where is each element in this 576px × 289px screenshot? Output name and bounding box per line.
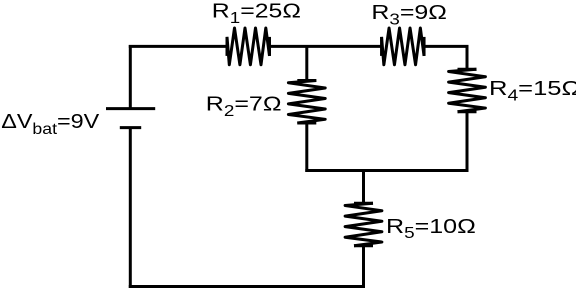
svg-text:ΔVbat=9V: ΔVbat=9V xyxy=(1,109,99,137)
label R1=25Ω xyxy=(212,0,301,26)
wire: R2 top lead from junction xyxy=(305,45,308,81)
wire: top-left corner to R1 xyxy=(129,45,228,48)
wire: battery bottom lead xyxy=(129,128,132,288)
wire: middle rail (R2 bottom to R4 bottom) xyxy=(305,169,468,172)
label R2=7Ω xyxy=(206,92,282,120)
label R4=15Ω xyxy=(489,76,576,104)
svg-text:R1=25Ω: R1=25Ω xyxy=(212,0,301,26)
svg-text:R4=15Ω: R4=15Ω xyxy=(489,76,576,104)
resistor R5 xyxy=(345,203,382,246)
wire: R4 bottom lead xyxy=(466,112,469,172)
label ΔVbat=9V xyxy=(1,109,99,137)
label R3=9Ω xyxy=(371,0,447,28)
svg-text:R2=7Ω: R2=7Ω xyxy=(206,92,282,120)
svg-text:R5=10Ω: R5=10Ω xyxy=(386,214,476,242)
wire: R4 top lead xyxy=(466,45,469,69)
battery V1 plates xyxy=(106,109,155,128)
wire: bottom rail xyxy=(129,285,365,288)
wire: R5 bottom lead xyxy=(362,246,365,288)
resistor R3 xyxy=(382,28,425,65)
wire: battery top lead xyxy=(129,45,132,109)
resistor R2 xyxy=(288,81,325,124)
wire: R5 top lead from middle-rail junction xyxy=(362,169,365,203)
resistor R1 xyxy=(227,28,270,65)
resistor R4 xyxy=(449,69,486,112)
label R5=10Ω xyxy=(386,214,476,242)
wire: R1 to R3 (through top junction node) xyxy=(269,45,382,48)
wire: R2 bottom lead xyxy=(305,123,308,172)
svg-text:R3=9Ω: R3=9Ω xyxy=(371,0,447,28)
wire: R3 to top-right corner xyxy=(424,45,469,48)
